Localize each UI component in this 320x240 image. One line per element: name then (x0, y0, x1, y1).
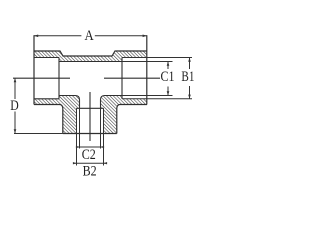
run centerline left (13, 77, 70, 79)
run through-bore top (59, 61, 122, 63)
C1 bottom extension (122, 95, 173, 97)
outline: bottom left with fillet (34, 105, 63, 134)
branch socket shoulder (77, 107, 104, 109)
left socket bore top (34, 57, 59, 59)
branch socket left B2 extension (76, 108, 78, 165)
B2 dimension line (75, 162, 105, 164)
tee body section (hatched walls) (34, 51, 147, 134)
right socket shoulder (121, 58, 123, 99)
run through-bore bottom right with fillet into branch (101, 96, 123, 109)
branch bore right line + C2 extension (100, 99, 102, 149)
svg-text:C1: C1 (161, 69, 175, 85)
C1 dimension line (167, 62, 169, 96)
B1 arrows (188, 58, 191, 99)
svg-text:B1: B1 (181, 69, 194, 85)
outline: right face + A extension (146, 35, 148, 104)
right socket bore top + B1 top extension (122, 57, 192, 59)
branch socket right B2 extension (103, 108, 105, 165)
outline: top edge with hub steps (34, 51, 147, 56)
svg-text:D: D (10, 98, 19, 114)
run through-bore bottom left with fillet into branch (59, 96, 80, 109)
B2 arrows (73, 162, 107, 164)
C1 top extension (122, 61, 173, 63)
branch face line (63, 133, 117, 135)
svg-text:A: A (85, 28, 94, 44)
branch bore left line + C2 extension (79, 99, 81, 149)
C2 arrows (76, 146, 104, 148)
outline: left face + A extension (33, 35, 35, 104)
dimension D arrows (14, 78, 17, 134)
D bottom extension line (14, 133, 63, 135)
svg-text:C2: C2 (82, 147, 96, 163)
left socket shoulder (58, 58, 60, 99)
branch centerline (89, 92, 91, 141)
dimension A line (34, 35, 147, 37)
svg-text:B2: B2 (83, 163, 97, 179)
dimension A arrows (34, 35, 147, 38)
dimension D line (14, 78, 16, 134)
B1 dimension line (189, 58, 191, 99)
C1 arrows (167, 62, 170, 96)
left socket bore bottom (34, 98, 59, 100)
C2 dimension line (77, 146, 103, 148)
run centerline right (104, 77, 160, 79)
outline: branch right wall and bottom right with fillet (117, 105, 147, 134)
right socket bore bottom + B1 bottom extension (122, 98, 192, 100)
